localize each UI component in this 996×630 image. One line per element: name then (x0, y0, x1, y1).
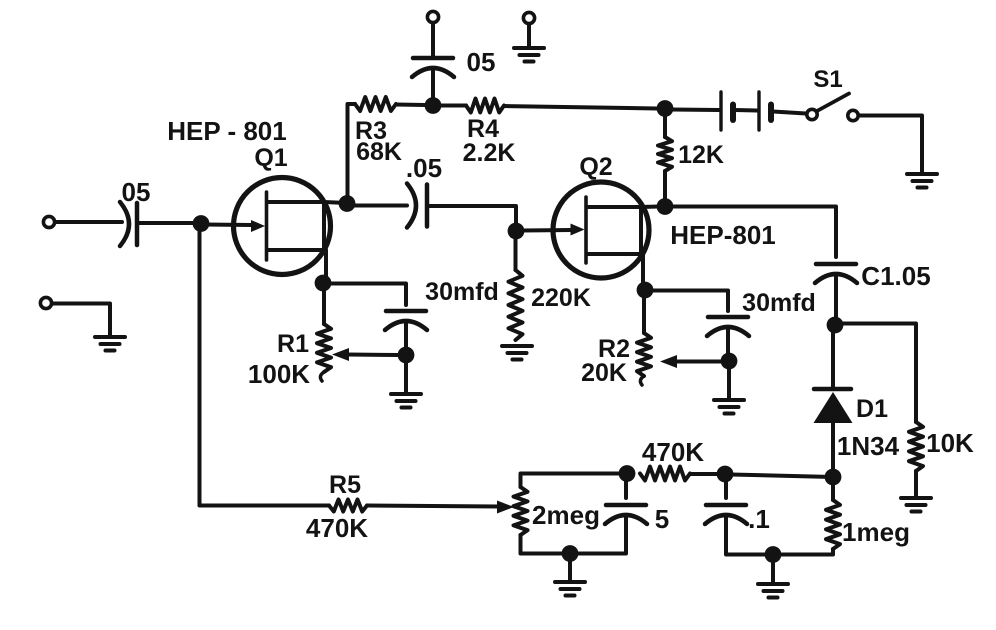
capacitor 30mfd (Q1 bypass) (386, 309, 426, 314)
svg-text:100K: 100K (248, 359, 310, 389)
svg-text:5: 5 (655, 504, 669, 534)
ground (S1 return) (907, 172, 937, 176)
capacitor C6 .1 (706, 503, 746, 508)
svg-text:.1: .1 (748, 504, 770, 534)
resistor 12K (658, 137, 672, 171)
battery B1 (721, 92, 771, 130)
wire 30mfd to node L (726, 329, 730, 355)
resistor R3 (355, 97, 396, 111)
wire node H to 1meg (831, 483, 835, 500)
svg-text:10K: 10K (926, 428, 974, 458)
wire node E to C1 (671, 207, 836, 258)
resistor 470K (RC) (640, 467, 690, 481)
wire C6 bottom to bus (726, 517, 833, 555)
capacitor C5 5mfd (606, 503, 646, 508)
wire node D down to 12K (663, 114, 667, 137)
wire node G to D1 (831, 331, 835, 388)
wire node D to battery (671, 108, 719, 113)
wire J1 to C-in (55, 220, 122, 224)
wire node B to C-int (349, 204, 407, 208)
capacitor 30mfd (Q2 bypass) (708, 315, 748, 320)
wire node J to ground (404, 361, 408, 393)
wire 12K to node E (663, 171, 667, 202)
svg-text:30mfd: 30mfd (742, 289, 816, 317)
ground (10K) (901, 496, 931, 500)
resistor R5 470K (329, 500, 367, 512)
wire node K down to R2 (642, 296, 646, 333)
wire node B up to R3 (348, 104, 356, 203)
svg-text:1meg: 1meg (842, 517, 910, 547)
potentiometer R2 20K (637, 333, 651, 376)
svg-text:2.2K: 2.2K (463, 139, 516, 167)
arrow 2meg wiper (497, 501, 514, 514)
node D (battery junction) (657, 100, 674, 117)
node P (bottom bus 2) (765, 546, 782, 563)
node B (Q1 drain junction) (339, 195, 356, 212)
ground (30mfd Q2) (714, 398, 744, 402)
node H (AGC junction) (825, 469, 842, 486)
terminal J4 (chassis) (523, 12, 534, 23)
node J (R1 wiper junction) (398, 347, 415, 364)
wire R4 to node D (504, 106, 657, 109)
svg-text:220K: 220K (531, 284, 591, 312)
wire 2meg top to node M (521, 474, 620, 488)
wire 30mfd to node J (404, 323, 408, 349)
wire 1meg to bus (831, 549, 835, 554)
svg-text:68K: 68K (356, 138, 402, 166)
arrow R1 wiper (332, 348, 349, 361)
node L (R2 wiper junction) (721, 353, 738, 370)
svg-text:30mfd: 30mfd (425, 278, 499, 306)
capacitor C1 .05 (816, 262, 856, 267)
wire battery to S1 (773, 112, 806, 114)
wire C-in to node A (137, 221, 199, 225)
input terminal J2 (40, 297, 51, 308)
svg-text:HEP-801: HEP-801 (670, 220, 776, 250)
wire J2 to ground (52, 304, 110, 337)
svg-text:R5: R5 (329, 471, 361, 499)
ground (C5/2meg) (555, 580, 585, 584)
wire cap to terminal J3 (431, 23, 435, 57)
wire node C up to cap (431, 70, 435, 97)
wire node O to ground (568, 556, 572, 581)
svg-text:C1.05: C1.05 (861, 261, 930, 291)
svg-text:1N34: 1N34 (837, 431, 900, 461)
wire Q1 source down (324, 250, 328, 283)
capacitor C-int .05 (interstage) (425, 185, 430, 227)
svg-text:Q2: Q2 (579, 153, 612, 181)
node G (detector junction) (827, 317, 844, 334)
wire C1 to node G (834, 276, 838, 319)
transistor Q2 (HEP-801 FET) (553, 182, 649, 278)
wire node I down to R1 (322, 289, 326, 324)
wire node L to ground (727, 367, 731, 399)
ground (input J2) (95, 335, 125, 339)
wire Q2 source down (641, 254, 645, 290)
resistor 220K (509, 270, 523, 340)
wire bus to R5 (200, 503, 330, 506)
svg-text:HEP - 801: HEP - 801 (167, 116, 286, 146)
node C (supply junction) (425, 97, 442, 114)
capacitor C-sup 05 (supply bypass) (413, 56, 453, 61)
svg-text:S1: S1 (813, 66, 842, 93)
wire node P to ground (771, 557, 775, 583)
wire S1 to ground (859, 116, 923, 174)
ground (30mfd Q1) (391, 392, 421, 396)
resistor 10K (909, 422, 923, 471)
node F (Q2 gate junction) (508, 223, 525, 240)
svg-text:Q1: Q1 (254, 144, 287, 172)
wire D1 to node H (831, 423, 835, 470)
ground (C6/1meg) (758, 582, 788, 586)
node N (RC junction 2) (717, 466, 734, 483)
node I (Q1 source junction) (315, 275, 332, 292)
resistor R4 (466, 99, 504, 113)
wire C5 bottom (624, 517, 628, 553)
svg-text:.05: .05 (406, 153, 442, 183)
wire J4 to ground (527, 24, 531, 47)
wire node F to Q2 gate (522, 228, 572, 233)
svg-text:05: 05 (467, 47, 496, 77)
wire node F down to 220K (514, 237, 518, 270)
resistor 1meg (826, 500, 840, 549)
wire node G to 10K (841, 324, 916, 423)
wire node A to Q1 gate (203, 223, 252, 228)
svg-text:05: 05 (122, 177, 151, 207)
arrow R2 wiper (660, 355, 677, 368)
wire node C to R4 (441, 104, 466, 108)
node A (input junction) (193, 215, 210, 232)
wire R5 to 2meg wiper (367, 506, 499, 507)
node E (Q2 drain junction) (657, 198, 674, 215)
ground (J4) (514, 46, 544, 50)
potentiometer R1 100K (317, 324, 331, 372)
potentiometer 2meg (514, 487, 528, 535)
svg-text:R1: R1 (277, 330, 309, 358)
wire node K to 30mfd (651, 291, 728, 312)
node M (RC junction 1) (619, 465, 636, 482)
wire node A down to R5 bus (198, 230, 202, 505)
ground (220K) (502, 344, 532, 348)
wire node N to node H (731, 475, 833, 478)
node O (bottom bus 1) (562, 545, 579, 562)
wire 2meg bottom to bus (521, 535, 627, 554)
transistor Q1 (HEP-801 FET) (234, 178, 331, 275)
wire wiper R2 (675, 360, 723, 364)
wire node I to 30mfd (329, 284, 406, 306)
wire R3 to node C (396, 103, 425, 108)
input terminal J1 (43, 216, 54, 227)
capacitor C-in .05 (input coupling) (135, 203, 140, 245)
wire C-int to node F (427, 206, 516, 226)
svg-text:470K: 470K (306, 513, 368, 543)
terminal J3 (supply +) (427, 11, 438, 22)
switch S1 (807, 94, 858, 121)
wire 10K to ground (914, 471, 918, 497)
wire C6 top to node N (724, 480, 728, 498)
wire wiper R1 (347, 353, 400, 358)
svg-text:D1: D1 (856, 395, 888, 423)
svg-text:2meg: 2meg (532, 500, 600, 530)
diode D1 1N34 (814, 389, 853, 423)
svg-text:20K: 20K (581, 359, 627, 387)
svg-text:12K: 12K (678, 141, 724, 169)
wire 470K to node N (690, 472, 717, 476)
wire Q1 drain to node B (324, 202, 347, 203)
wire Q2 drain to node E (641, 205, 659, 210)
svg-text:470K: 470K (642, 437, 704, 467)
wire C5 top to node M (624, 479, 628, 498)
node K (Q2 source junction) (637, 282, 654, 299)
